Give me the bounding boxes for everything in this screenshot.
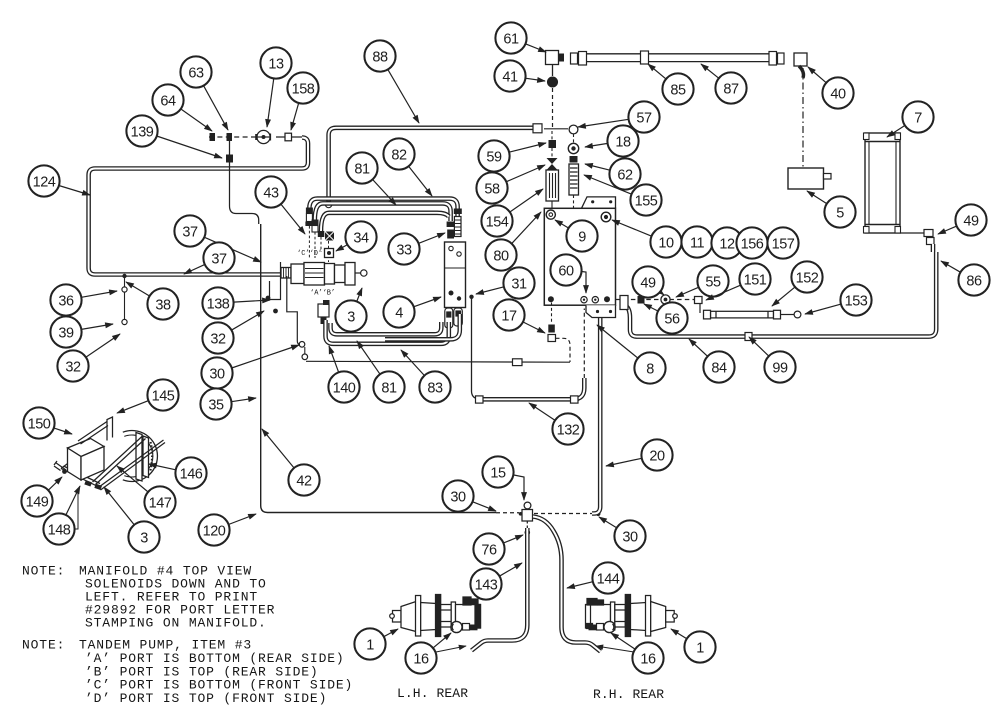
motor cube 150 — [68, 439, 105, 481]
fitting on line 17 — [548, 325, 555, 333]
tee fitting 15/76 — [519, 502, 533, 535]
hose 82 run — [309, 199, 457, 216]
balloon 8 — [597, 325, 666, 384]
bolt on manifold bottom bracket 2 — [609, 310, 612, 313]
svg-text:40: 40 — [830, 86, 846, 102]
balloon 132 — [529, 403, 584, 445]
svg-text:20: 20 — [649, 448, 665, 464]
svg-text:49: 49 — [963, 213, 979, 229]
balloon 49 — [632, 266, 664, 297]
bolt on manifold bottom bracket — [596, 310, 599, 313]
line 41 to tee 57 — [552, 88, 554, 127]
hose 43 run — [321, 213, 449, 231]
balloon 4 — [383, 296, 441, 327]
balloon 59 — [478, 140, 546, 171]
supply line 42/120 vertical and bottom run — [261, 224, 496, 513]
balloon 15 — [482, 456, 524, 500]
junction dot 31 — [469, 295, 473, 299]
balloon 88 — [364, 40, 419, 123]
svg-text:61: 61 — [503, 31, 519, 47]
frame bracket tab 149 — [54, 461, 66, 471]
svg-text:124: 124 — [33, 174, 56, 190]
svg-text:18: 18 — [615, 134, 631, 150]
svg-text:55: 55 — [705, 274, 721, 290]
svg-text:120: 120 — [203, 523, 226, 539]
filter 154 — [546, 170, 559, 201]
balloon 146 — [149, 457, 207, 488]
svg-text:85: 85 — [670, 82, 686, 98]
air tank 7 — [864, 133, 901, 233]
svg-text:80: 80 — [493, 248, 509, 264]
svg-text:15: 15 — [490, 465, 506, 481]
end fitting 153 — [781, 311, 801, 318]
tube 87 bottom wall — [586, 61, 769, 63]
tube to tee 57 — [544, 128, 568, 130]
filter 155 to manifold — [573, 195, 575, 208]
balloon 32 — [202, 311, 264, 354]
balloon 84 — [689, 339, 735, 383]
balloon 56 — [644, 302, 688, 333]
nipple below elbow 61 — [552, 65, 554, 77]
pump outlet fitting right — [355, 270, 367, 276]
svg-text:145: 145 — [152, 388, 175, 404]
hose clamp 99 — [745, 333, 752, 341]
balloon 1 — [671, 629, 716, 663]
balloon 12 — [711, 227, 742, 258]
fitting 62 — [570, 156, 578, 163]
balloon 37 — [174, 215, 261, 262]
manifold bottom port B — [604, 296, 610, 302]
hose 84 / 86 run (tank to manifold) — [624, 244, 936, 337]
svg-text:38: 38 — [155, 297, 171, 313]
balloon 35 — [200, 388, 256, 419]
manifold bottom port A — [548, 296, 554, 302]
svg-text:99: 99 — [772, 360, 788, 376]
svg-text:140: 140 — [333, 380, 356, 396]
balloon 55 — [676, 265, 729, 297]
balloon 43 — [255, 176, 305, 234]
svg-text:81: 81 — [354, 161, 370, 177]
ferrule left of tube 87 — [579, 52, 587, 66]
svg-text:5: 5 — [836, 205, 844, 221]
balloon 40 — [808, 67, 854, 109]
hose 132 right leg to manifold — [583, 309, 585, 379]
svg-text:87: 87 — [723, 81, 739, 97]
ferrule right of tube 87 — [769, 52, 777, 66]
svg-text:37: 37 — [182, 224, 198, 240]
balloon 144 — [567, 562, 624, 593]
manifold port 9 — [546, 210, 555, 219]
svg-text:3: 3 — [347, 309, 355, 325]
svg-text:30: 30 — [450, 489, 466, 505]
dashed line manifold to hose 152 — [616, 299, 697, 301]
valve block 4 — [445, 242, 466, 308]
check valve 41 outline — [548, 77, 558, 87]
svg-text:153: 153 — [845, 293, 868, 309]
svg-text:‘A’‘B’: ‘A’‘B’ — [310, 290, 335, 298]
balloon 36 — [50, 284, 117, 315]
balloon 147 — [117, 466, 176, 518]
balloon 149 — [21, 477, 62, 517]
balloon 150 — [23, 407, 72, 438]
line 139 (fitting to pump area) — [230, 141, 259, 224]
filter 154 to manifold — [551, 201, 553, 208]
svg-text:35: 35 — [208, 397, 224, 413]
nut on hose 82 left end — [306, 208, 313, 214]
svg-text:56: 56 — [664, 311, 680, 327]
balloon 31 — [476, 267, 535, 298]
balloon 58 — [476, 165, 545, 204]
balloon 155 — [584, 175, 662, 216]
svg-text:10: 10 — [658, 235, 674, 251]
valve 4 top fittings 33 — [447, 209, 462, 239]
elbow fitting below manifold outlet — [620, 296, 628, 310]
junction circle on hose bundle — [325, 201, 331, 207]
svg-text:37: 37 — [211, 251, 227, 267]
balloon 153 — [805, 284, 872, 315]
fitting 58 — [547, 158, 558, 170]
balloon 85 — [648, 64, 694, 105]
svg-text:33: 33 — [396, 242, 412, 258]
svg-text:’D’ PORT IS TOP (FRONT SIDE): ’D’ PORT IS TOP (FRONT SIDE) — [85, 691, 327, 706]
svg-text:STAMPING ON MANIFOLD.: STAMPING ON MANIFOLD. — [85, 616, 267, 631]
tee fitting 57 — [569, 125, 578, 134]
filter element 155 — [569, 164, 579, 195]
valve 4 port dot 1 — [449, 246, 453, 250]
fitting 18 — [568, 143, 578, 153]
coupler on return line — [513, 359, 523, 366]
balloon 33 — [388, 233, 445, 265]
R.H. brake chamber 1 — [586, 595, 678, 637]
balloon 9 — [555, 220, 598, 252]
balloon 37 — [184, 242, 235, 274]
balloon 17 — [493, 299, 545, 333]
balloon 124 — [28, 165, 90, 196]
quick coupler 49/55 — [661, 295, 670, 310]
balloon 32 — [57, 334, 120, 382]
svg-text:157: 157 — [772, 236, 795, 252]
svg-text:9: 9 — [578, 229, 586, 245]
balloon 39 — [50, 316, 113, 347]
R.H. chamber port fitting 16 — [589, 621, 616, 632]
fitting 59 — [549, 140, 557, 148]
svg-text:76: 76 — [481, 542, 497, 558]
svg-text:84: 84 — [711, 360, 727, 376]
svg-text:59: 59 — [486, 149, 502, 165]
return line 30 (long thin) — [306, 360, 570, 363]
svg-text:1: 1 — [366, 637, 374, 653]
note 1 text — [22, 564, 275, 631]
leader line 148 elbow — [75, 488, 78, 529]
balloon 140 — [328, 346, 359, 403]
valve 4 port dot 4 — [457, 296, 461, 300]
pump port C dashed — [308, 226, 310, 258]
svg-text:11: 11 — [690, 235, 704, 251]
svg-text:149: 149 — [26, 494, 49, 510]
union 139 — [226, 155, 233, 163]
balloon 1 — [354, 628, 398, 659]
balloon 120 — [198, 514, 256, 546]
tee fitting 43/34 (X box) — [325, 232, 334, 241]
svg-text:8: 8 — [646, 361, 654, 377]
balloon 49 — [938, 204, 987, 235]
dashed segment tee to corner 30 — [534, 513, 592, 515]
svg-text:41: 41 — [502, 69, 518, 85]
upright post 145 — [78, 417, 113, 444]
balloon 3 — [104, 487, 160, 553]
bracket bolt 32 — [273, 309, 278, 314]
svg-text:32: 32 — [210, 331, 226, 347]
L.H. chamber port fitting 16 — [451, 621, 478, 632]
ferrule hose 81 left — [312, 226, 318, 233]
svg-text:62: 62 — [617, 167, 633, 183]
line elbow 40 to pressure switch 5 — [802, 68, 804, 167]
svg-text:57: 57 — [636, 110, 652, 126]
balloon 61 — [495, 22, 546, 53]
diagonal brace 147 — [93, 436, 146, 485]
tube 87 top wall — [586, 53, 769, 55]
hose 132 right fitting — [571, 396, 579, 403]
elbow fitting 49 at tank — [900, 230, 934, 245]
hose 143 (tee to L.H. rear) — [472, 528, 528, 651]
svg-text:31: 31 — [511, 276, 527, 292]
pump cylinder 146 — [123, 431, 158, 482]
svg-text:148: 148 — [48, 522, 71, 538]
balloon 87 — [701, 64, 747, 104]
svg-text:7: 7 — [914, 110, 922, 126]
svg-text:3: 3 — [140, 530, 148, 546]
balloon 157 — [767, 227, 798, 258]
svg-text:152: 152 — [796, 270, 819, 286]
fitting 158 — [285, 133, 292, 141]
manifold bottom fittings — [581, 297, 599, 303]
svg-text:R.H. REAR: R.H. REAR — [593, 687, 664, 702]
pump port dashed to fitting 34 — [328, 241, 330, 262]
mounting studs 148 — [84, 480, 102, 490]
feed line seg2 — [292, 136, 303, 138]
pressure switch 5 body — [788, 168, 824, 189]
balloon 7 — [887, 101, 934, 137]
line 31 (down to hose 132) — [472, 298, 478, 399]
valve 4 bottom fittings — [445, 308, 463, 328]
nut on hose 81 left end — [312, 220, 319, 226]
svg-text:NOTE:: NOTE: — [22, 637, 65, 652]
check valve fitting 41 — [548, 77, 558, 87]
hose assembly 152 — [704, 310, 781, 319]
svg-text:16: 16 — [640, 651, 656, 667]
svg-text:L.H. REAR: L.H. REAR — [397, 686, 468, 701]
svg-text:147: 147 — [149, 495, 172, 511]
hose coupler 85 — [641, 51, 649, 64]
balloon 81 — [357, 341, 405, 403]
svg-text:39: 39 — [58, 325, 74, 341]
drain elbow 30 — [297, 341, 307, 360]
balloon 63 — [180, 56, 228, 130]
svg-text:64: 64 — [160, 93, 176, 109]
svg-text:155: 155 — [635, 193, 658, 209]
bolt on manifold top bracket — [591, 200, 594, 203]
balloon 57 — [578, 101, 660, 132]
drain tee fittings 36/39 below hose 124 — [122, 274, 127, 325]
balloon 5 — [807, 191, 856, 228]
svg-text:88: 88 — [372, 49, 388, 65]
balloon 99 — [749, 337, 796, 383]
svg-text:151: 151 — [744, 272, 767, 288]
balloon 30 — [599, 517, 646, 552]
assembly bolt 149 — [62, 469, 67, 474]
base fitting above pump port C — [305, 222, 313, 227]
manifold port 10 — [601, 212, 611, 222]
elbow fitting 61 — [546, 51, 565, 65]
balloon 16 — [611, 633, 664, 674]
bolt on manifold top bracket 2 — [609, 200, 612, 203]
balloon 83 — [401, 350, 451, 403]
balloon 62 — [585, 158, 641, 189]
pump bottom port fittings A/B — [318, 300, 330, 324]
hose 124 loop — [89, 138, 308, 275]
svg-text:16: 16 — [413, 651, 429, 667]
hose coupler on line 88 — [533, 124, 542, 133]
hose middle lower — [385, 314, 460, 339]
svg-text:143: 143 — [475, 577, 498, 593]
leader fork 16 R.H. — [596, 646, 634, 652]
elbow 17 to return line — [556, 338, 571, 362]
balloon 81 — [346, 152, 396, 205]
svg-text:81: 81 — [381, 380, 397, 396]
hose 88 drop — [329, 128, 534, 202]
fitting 34 — [325, 249, 334, 258]
svg-text:156: 156 — [741, 236, 764, 252]
tandem pump 3 — [281, 263, 355, 286]
svg-text:139: 139 — [131, 124, 154, 140]
svg-text:4: 4 — [395, 305, 403, 321]
svg-text:32: 32 — [65, 359, 81, 375]
balloon 41 — [494, 60, 545, 91]
svg-text:13: 13 — [268, 56, 284, 72]
svg-text:36: 36 — [58, 293, 74, 309]
svg-text:TANDEM PUMP, ITEM #3: TANDEM PUMP, ITEM #3 — [79, 637, 252, 652]
valve 4 port dot 2 — [457, 252, 461, 256]
balloon 143 — [470, 563, 522, 600]
svg-text:1: 1 — [696, 640, 704, 656]
pressure switch 5 terminal — [824, 174, 832, 180]
svg-text:30: 30 — [622, 529, 638, 545]
L.H. brake chamber 1 — [390, 595, 481, 637]
hose 140/81 lower outer — [326, 320, 449, 344]
fitting 64 — [210, 133, 216, 141]
elbow 17 — [548, 335, 556, 342]
balloon 138 — [202, 287, 270, 318]
svg-text:86: 86 — [966, 273, 982, 289]
drop to fitting 59 — [551, 131, 553, 140]
balloon 154 — [481, 189, 543, 237]
balloon 139 — [126, 115, 222, 158]
hose 20 (manifold to rear tee) — [592, 318, 600, 514]
pump bracket left — [270, 262, 281, 300]
feed line with fittings 63/64 — [209, 136, 256, 138]
balloon 60 — [550, 254, 586, 293]
balloon 156 — [736, 227, 767, 258]
junction dot 30 — [596, 512, 601, 517]
svg-text:82: 82 — [391, 147, 407, 163]
hose 144 (tee to R.H. rear) — [533, 517, 601, 652]
balloon 18 — [585, 125, 639, 156]
balloon 3 — [335, 288, 366, 332]
svg-text:154: 154 — [486, 214, 509, 230]
svg-text:132: 132 — [557, 422, 580, 438]
balloon 10 — [612, 220, 682, 258]
drop to fitting 58 — [551, 148, 553, 157]
svg-text:146: 146 — [180, 466, 203, 482]
svg-text:43: 43 — [263, 185, 279, 201]
hose 81 run — [315, 203, 451, 221]
balloon 38 — [126, 282, 179, 320]
hose 83 lower inner — [331, 322, 442, 334]
fitting at left end of tube 87 — [571, 53, 578, 64]
balloon 13 — [260, 47, 291, 127]
svg-text:NOTE:: NOTE: — [22, 564, 65, 579]
sight glass / check valve 13 — [255, 130, 270, 143]
hose 132 left fitting — [476, 396, 484, 403]
balloon 145 — [117, 379, 179, 413]
balloon 80 — [485, 212, 541, 271]
balloon 34 — [336, 221, 377, 252]
fitting 63 — [227, 133, 233, 141]
balloon 151 — [706, 263, 771, 300]
hose 132 — [481, 378, 584, 399]
balloon 11 — [681, 226, 712, 257]
svg-text:63: 63 — [188, 65, 204, 81]
balloon 148 — [43, 486, 80, 545]
svg-text:34: 34 — [353, 230, 369, 246]
svg-text:49: 49 — [640, 275, 656, 291]
balloon 30 — [442, 480, 496, 511]
nut on hose 43 left end — [318, 231, 325, 237]
drop to hose 152 — [699, 304, 701, 314]
ferrule hose 82 left — [306, 214, 312, 222]
bracket bolt 138 — [266, 296, 271, 301]
svg-text:138: 138 — [207, 296, 230, 312]
svg-text:58: 58 — [484, 181, 500, 197]
svg-text:158: 158 — [292, 81, 315, 97]
leader fork 16 L.H. — [436, 646, 466, 652]
balloon 158 — [287, 72, 318, 130]
dashed below fitting 43 — [320, 237, 322, 252]
svg-text:60: 60 — [558, 263, 574, 279]
fitting 151 — [695, 297, 703, 304]
svg-text:42: 42 — [296, 473, 312, 489]
dashed segment to tee 15 — [496, 512, 519, 514]
svg-text:83: 83 — [427, 380, 443, 396]
svg-text:17: 17 — [501, 308, 517, 324]
balloon 30 — [201, 345, 299, 389]
balloon 64 — [152, 84, 212, 131]
svg-text:150: 150 — [28, 416, 51, 432]
svg-text:30: 30 — [209, 366, 225, 382]
pump port D dashed — [314, 232, 316, 258]
balloon 152 — [772, 261, 823, 306]
elbow fitting 40 — [794, 53, 807, 78]
balloon 42 — [262, 429, 320, 496]
drop 57 to fitting 18 — [573, 134, 575, 143]
feed line seg — [276, 136, 285, 138]
manifold port to fitting 17 — [551, 303, 553, 325]
balloon 76 — [473, 533, 523, 564]
fitting right end of tube 87 — [778, 53, 785, 64]
svg-text:144: 144 — [597, 571, 620, 587]
fitting 56 — [638, 296, 645, 304]
balloon 16 — [405, 633, 451, 674]
